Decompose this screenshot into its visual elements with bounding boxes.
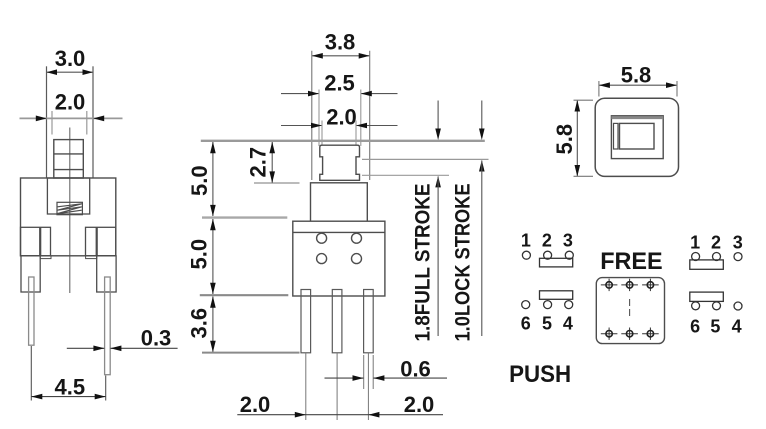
svg-text:2.0: 2.0 [55,90,86,115]
top reference line [201,140,485,142]
svg-text:0.6: 0.6 [400,357,431,382]
svg-text:5.8: 5.8 [552,124,577,155]
body [21,178,116,256]
sleeve / extension lines of 3.0 [47,66,94,178]
dim 4.5 extension lines [31,346,105,401]
top view outer square [595,98,678,176]
dim line 5.0 second [210,219,216,294]
dim 2.5 [281,90,398,147]
pin circles top row [522,251,573,259]
dim line 5.8 vertical [575,100,581,177]
connection bar bottom [540,291,573,300]
svg-text:PUSH: PUSH [509,361,571,388]
dim 2.0 [281,121,398,147]
svg-text:2.7: 2.7 [246,147,271,178]
plunger outline (cap, neck, flange) [320,145,360,180]
spring box [57,202,82,214]
collar [311,183,368,221]
svg-text:1: 1 [690,233,700,253]
plunger [54,140,84,178]
stroke ref line 1.8 [362,174,449,176]
leg extension lines [306,353,369,420]
svg-text:5: 5 [542,314,552,334]
dim line 5.0 first [210,142,216,217]
small step right [86,256,97,259]
svg-text:1: 1 [521,230,531,250]
connection bar top [540,258,573,267]
svg-text:2.0: 2.0 [240,392,271,417]
dim line 5.8 horizontal [599,82,677,88]
center line [69,128,71,294]
lower block right [97,256,116,292]
svg-text:6: 6 [521,314,531,334]
pin circles top row [692,253,742,261]
svg-text:3: 3 [733,233,743,253]
dim line 3.8 [312,53,370,59]
svg-text:2: 2 [711,233,721,253]
pin circles bottom row [522,301,573,309]
dim 0.3 [67,346,178,352]
svg-text:1.0LOCK STROKE: 1.0LOCK STROKE [452,184,475,342]
switch body [293,221,385,296]
stroke ref line 1.0 [362,158,489,160]
pin left [29,277,34,345]
svg-text:2: 2 [542,230,552,250]
svg-text:2.0: 2.0 [404,392,435,417]
down arrow line B (lock stroke) [479,101,485,141]
connection bar bottom [690,292,724,301]
leg notch left [21,227,51,256]
body circles [317,233,362,263]
svg-text:6: 6 [690,317,700,337]
down arrow line A (full stroke) [435,101,441,141]
svg-text:3.6: 3.6 [186,308,211,339]
reference line 2 [202,216,287,218]
dim line 2.0 with outside arrows [20,111,123,135]
svg-text:5.8: 5.8 [621,63,652,88]
top view narrow rect [614,123,619,149]
dim 0.6 [325,375,448,381]
top view inner rect thick top edge [611,116,663,119]
svg-text:FREE: FREE [600,248,663,275]
bottom view center dashed line [629,299,631,318]
svg-text:3.0: 3.0 [55,46,86,71]
extension line 2.7 (collar top) [254,182,300,184]
svg-text:5.0: 5.0 [187,239,212,270]
svg-text:4: 4 [563,314,573,334]
dim line 3.0 [47,69,94,75]
svg-text:2.0: 2.0 [326,105,357,130]
svg-text:4: 4 [732,317,742,337]
svg-text:0.3: 0.3 [141,326,172,351]
pin right [105,277,111,375]
svg-text:2.5: 2.5 [324,71,355,96]
dim line 1.8 full stroke [435,176,441,336]
dim line 4.5 [31,394,105,400]
0.6 extension lines [364,355,374,389]
extension ticks 5.8 horizontal [599,81,677,97]
small step left [40,256,51,259]
bottom view pins bottom row [601,328,659,340]
dim line 2.7 [269,142,275,183]
svg-text:5: 5 [710,317,720,337]
svg-text:5.0: 5.0 [187,165,212,196]
dim line 1.0 lock stroke [479,160,485,336]
extension lines 3.8 / collar sides [312,51,370,180]
legs [301,290,373,353]
svg-text:3: 3 [563,230,573,250]
lower block left [21,256,40,292]
inner rect [47,178,89,214]
svg-text:3.8: 3.8 [325,30,356,55]
leg notch right [86,227,116,256]
bottom view outline [596,278,664,344]
pin circles bottom row [692,302,742,310]
reference line 4 [202,352,300,354]
svg-text:1.8FULL STROKE: 1.8FULL STROKE [412,184,435,342]
top view button rect [620,123,655,149]
connection bar top [690,260,724,269]
top view inner rect [611,116,663,159]
reference line 3 [200,294,288,296]
dim line 3.6 [210,296,216,352]
bottom dim line 2.0+2.0 [237,412,443,418]
extension ticks 5.8 vertical [574,100,594,176]
svg-text:4.5: 4.5 [55,375,86,400]
bottom view pins top row [601,279,659,291]
